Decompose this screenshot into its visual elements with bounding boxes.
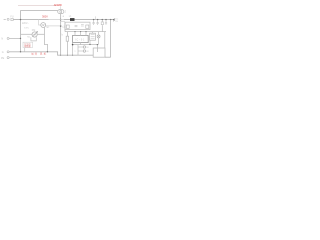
wire: top horizontal to transformer xyxy=(21,9,58,11)
wire: box bottom link xyxy=(105,56,111,58)
wire: rail under box1 xyxy=(65,22,106,31)
output right vertical xyxy=(110,19,111,20)
node junction T1/main xyxy=(60,19,62,21)
wire: feedback line xyxy=(73,44,98,46)
resistor marks inside box1 xyxy=(75,26,78,27)
wire: main horizontal rail xyxy=(13,19,48,21)
wire: box bottom drop xyxy=(24,48,26,52)
capacitor CY inside box1 xyxy=(86,25,89,28)
resistor R vertical left of IC xyxy=(66,32,68,37)
svg-text:加热: 加热 xyxy=(31,52,37,56)
wire: transformer bottom vertical xyxy=(60,14,62,55)
node junction left xyxy=(20,19,21,20)
hanging cap 1 xyxy=(93,19,94,20)
node junction motor wire xyxy=(60,25,62,27)
wire: motor Ca drop from main rail xyxy=(39,20,41,25)
wire: faint top annotation line xyxy=(18,5,56,7)
svg-text:G: G xyxy=(2,51,4,54)
fan arrow xyxy=(32,31,37,37)
output connector box xyxy=(93,48,105,57)
lamp component xyxy=(97,35,100,38)
wire: fan right lead xyxy=(37,33,45,35)
node dots on bus xyxy=(60,55,61,56)
wire: link to box1 xyxy=(61,20,65,22)
wire: PE lead xyxy=(9,57,45,59)
svg-text:FU: FU xyxy=(10,15,13,18)
relay box right xyxy=(90,33,96,40)
wire: top loop vertical from transformer xyxy=(60,6,62,9)
fan motor Cb circle xyxy=(32,32,37,37)
IC pins top xyxy=(75,32,86,36)
IC U1 box xyxy=(73,35,89,42)
LED branch vertical xyxy=(77,45,79,56)
svg-text:IC-01: IC-01 xyxy=(75,38,85,41)
node junctions feedback xyxy=(72,44,74,46)
wire: main left vertical bus xyxy=(20,10,22,51)
wire: Ca right lead to junction xyxy=(46,25,61,27)
node junction N xyxy=(20,38,21,39)
AC input plug L xyxy=(4,19,6,21)
wire: Ca bottom lead down xyxy=(44,27,47,52)
svg-text:220V~: 220V~ xyxy=(22,23,29,25)
svg-text:300V: 300V xyxy=(42,14,48,18)
fuse FU xyxy=(11,18,13,20)
wire: right drop to box xyxy=(104,32,106,48)
node junctions row3 xyxy=(20,51,21,52)
LED D2 xyxy=(78,50,83,52)
hanging cap 2 xyxy=(97,19,98,20)
snubber box1 xyxy=(65,22,90,29)
capacitor CX inside box1 xyxy=(66,25,69,28)
output terminal xyxy=(113,19,114,20)
IC pins bottom xyxy=(73,43,81,56)
wire: fan left lead xyxy=(21,33,32,35)
annotation box (red text) xyxy=(23,42,33,47)
small mark above rail xyxy=(95,16,97,19)
motor Ca circle xyxy=(41,23,46,28)
svg-text:风机: 风机 xyxy=(40,52,47,56)
hanging cap 3 xyxy=(105,19,106,20)
wire: fan bottom U loop xyxy=(31,37,36,41)
hanging varistor xyxy=(102,19,103,20)
svg-text:N: N xyxy=(1,38,3,41)
svg-text:PE: PE xyxy=(1,57,5,60)
node dots on rail xyxy=(74,31,75,32)
wire: N lead xyxy=(9,37,20,39)
svg-text:50Hz: 50Hz xyxy=(24,28,29,30)
choke L1 (dark) on main rail xyxy=(70,18,75,21)
wire: row3 lead xyxy=(9,52,93,55)
LED D1 xyxy=(78,46,83,48)
transformer T1 circle xyxy=(58,10,62,14)
svg-text:FM: FM xyxy=(32,29,35,32)
